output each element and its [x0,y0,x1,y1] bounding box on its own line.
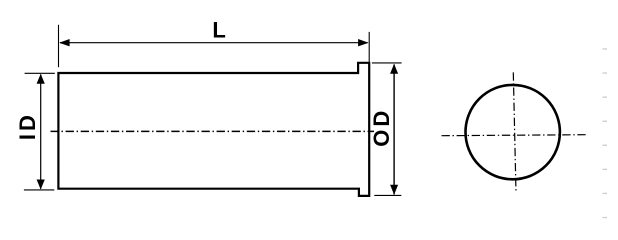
L label [212,17,225,42]
OD dimension arrowhead bottom [390,185,398,195]
ruler grid ticks at right edge [603,48,608,218]
OD dimension extension line top [372,62,402,64]
svg-text:L: L [212,17,225,42]
tube body outline with flange (side view) [58,63,369,196]
ID dimension arrowhead top [37,74,45,84]
end view vertical centerline [513,72,516,193]
L dimension line [60,42,368,44]
L dimension extension line left [58,25,60,67]
ID label (rotated) [15,112,40,140]
OD dimension arrowhead top [390,64,398,74]
ID dimension arrowhead bottom [37,180,45,190]
ID dimension extension line top [25,72,55,74]
OD dimension extension line bottom [374,194,401,196]
OD label (rotated) [369,108,394,147]
ID dimension line [40,75,42,189]
end view horizontal centerline [442,135,587,136]
ID dimension extension line bottom [24,189,54,191]
L dimension extension line right [368,32,370,62]
svg-text:OD: OD [369,108,394,147]
OD dimension line [393,65,395,195]
side view centerline [51,130,375,132]
svg-text:ID: ID [15,112,40,140]
L dimension arrowhead left [59,39,70,46]
end view circle [466,85,560,179]
L dimension arrowhead right [358,39,369,46]
